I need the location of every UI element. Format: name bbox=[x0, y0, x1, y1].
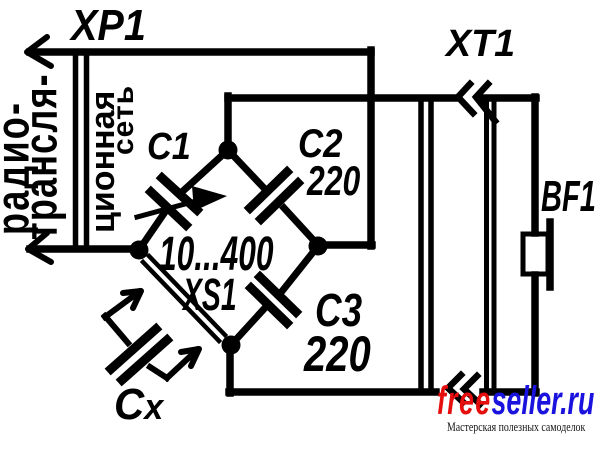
capacitor Cx lead 1 bbox=[105, 316, 128, 343]
node L bbox=[130, 241, 149, 260]
wire top A bbox=[30, 48, 371, 56]
capacitor C2 plates bbox=[250, 172, 298, 219]
diamond edge R-B with C3 gap bbox=[231, 246, 318, 345]
speaker BF1 box bbox=[523, 234, 548, 274]
value 10...400 bbox=[159, 231, 273, 279]
net name ционная (rotated) bbox=[86, 91, 120, 233]
label C1 bbox=[147, 128, 191, 166]
net name радио- (rotated) bbox=[0, 101, 36, 235]
capacitor C3 plates bbox=[251, 277, 296, 323]
value 220 of C3 bbox=[304, 329, 371, 379]
arrow XP1 top bbox=[27, 37, 51, 66]
connector XT1 lines left pair bbox=[421, 101, 431, 391]
wire riser bottom node bbox=[226, 345, 234, 393]
wire riser top node bbox=[224, 96, 232, 150]
wire B horizontal bbox=[228, 94, 536, 102]
value 220 of C2 bbox=[307, 160, 360, 202]
watermark freeseller.ru bbox=[437, 381, 594, 421]
net name сеть (rotated) bbox=[109, 85, 139, 155]
arrow of variable C1 bbox=[137, 201, 196, 217]
diamond edge T-L with C1 gap bbox=[141, 150, 228, 247]
arrow XP1 bottom bbox=[28, 233, 51, 262]
plug arrow P1 bbox=[105, 292, 139, 317]
label BF1 bbox=[541, 175, 596, 219]
wire D right node to riser bbox=[318, 241, 372, 249]
node B bbox=[222, 336, 241, 355]
wire bottom left bbox=[229, 388, 436, 396]
label XT1 bbox=[446, 25, 515, 63]
node T bbox=[219, 141, 238, 160]
socket XS1 double line bbox=[143, 256, 225, 341]
plug arrow P2 bbox=[167, 350, 197, 378]
wire riser right from A down bbox=[367, 50, 375, 246]
wire C left bbox=[30, 245, 136, 253]
label XS1 bbox=[183, 272, 237, 317]
wire bottom right bbox=[483, 388, 536, 396]
capacitor Cx plates bbox=[111, 329, 167, 380]
connector XP1 pins bbox=[76, 54, 87, 246]
label XP1 bbox=[71, 4, 146, 48]
capacitor C1 plates bbox=[151, 178, 197, 225]
diamond edge T-R with C2 gap bbox=[228, 150, 318, 245]
plug chevrons XT1 top bbox=[458, 84, 473, 113]
wire speaker drop bbox=[531, 97, 539, 393]
connector XT1 lines right pair bbox=[487, 101, 495, 389]
capacitor Cx lead 2 bbox=[150, 367, 167, 378]
speaker BF1 bar bbox=[546, 222, 554, 287]
node R bbox=[309, 237, 328, 256]
watermark tagline bbox=[447, 419, 585, 435]
net name трансля- (rotated) bbox=[18, 73, 64, 240]
label C3 bbox=[315, 287, 362, 333]
label C2 bbox=[298, 124, 342, 164]
label Cx bbox=[114, 383, 163, 427]
plug chevrons XT1 bottom bbox=[448, 375, 463, 402]
